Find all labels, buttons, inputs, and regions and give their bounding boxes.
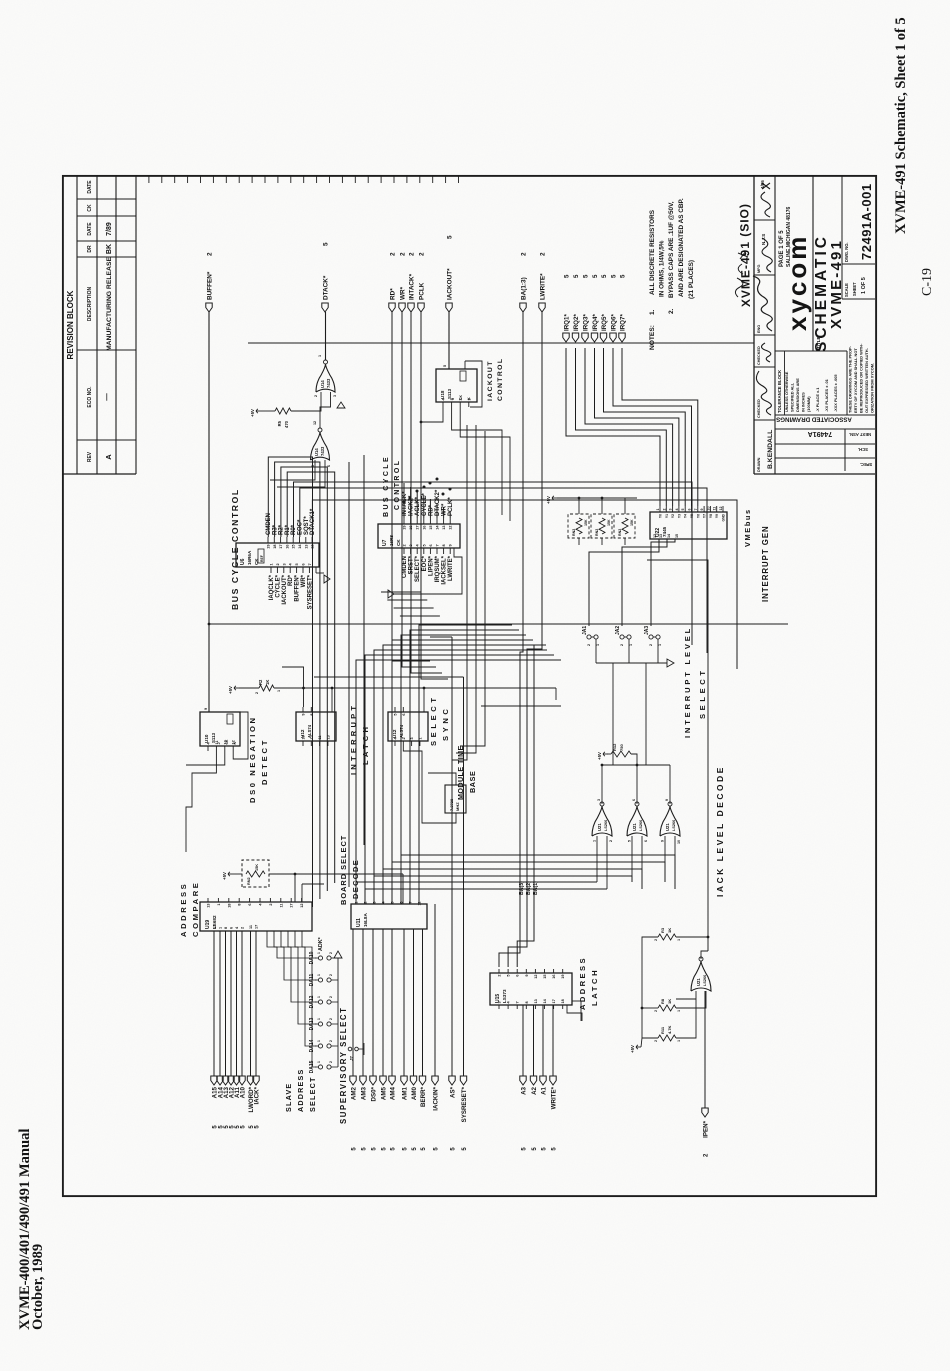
svg-text:DWG. NO.: DWG. NO. bbox=[844, 242, 849, 262]
svg-text:AM1: AM1 bbox=[402, 1086, 409, 1100]
svg-text:AM2: AM2 bbox=[351, 1086, 358, 1100]
svg-text:U21: U21 bbox=[597, 823, 602, 831]
svg-text:.X PLACE ±.1: .X PLACE ±.1 bbox=[815, 387, 820, 412]
svg-text:12: 12 bbox=[534, 975, 538, 979]
svg-text:15K: 15K bbox=[255, 864, 259, 871]
svg-text:U14: U14 bbox=[320, 380, 325, 388]
svg-text:ORIZATION FROM XYCOM.: ORIZATION FROM XYCOM. bbox=[870, 363, 875, 413]
svg-text:SALINE,MICHIGAN 48176: SALINE,MICHIGAN 48176 bbox=[786, 206, 792, 267]
svg-text:CYCLE*: CYCLE* bbox=[422, 493, 428, 516]
svg-text:2: 2 bbox=[329, 1061, 333, 1063]
svg-text:SYNC: SYNC bbox=[441, 706, 450, 742]
svg-text:MHZ: MHZ bbox=[455, 802, 460, 811]
svg-text:+5V: +5V bbox=[597, 752, 602, 760]
svg-text:RN2: RN2 bbox=[595, 529, 599, 536]
svg-text:BK: BK bbox=[106, 244, 113, 254]
svg-text:BA(1:3): BA(1:3) bbox=[521, 277, 528, 300]
svg-text:6: 6 bbox=[632, 799, 636, 801]
svg-text:13: 13 bbox=[442, 526, 446, 530]
svg-text:19: 19 bbox=[561, 975, 565, 979]
svg-text:AND ARE DESIGNATED AS CBP.: AND ARE DESIGNATED AS CBP. bbox=[678, 198, 685, 297]
svg-text:7: 7 bbox=[694, 509, 698, 511]
svg-text:15K: 15K bbox=[630, 519, 634, 526]
svg-text:DS0 NEGATION: DS0 NEGATION bbox=[248, 715, 257, 803]
svg-text:CMDEN: CMDEN bbox=[402, 556, 408, 578]
svg-text:IACK*: IACK* bbox=[254, 1086, 261, 1104]
svg-text:CONTROL: CONTROL bbox=[497, 358, 504, 401]
svg-text:4/85: 4/85 bbox=[760, 180, 765, 189]
svg-text:IN INCHES: IN INCHES bbox=[801, 392, 806, 412]
svg-text:INTERRUPT LEVEL: INTERRUPT LEVEL bbox=[683, 626, 692, 738]
svg-text:IRQ1*: IRQ1* bbox=[564, 314, 571, 331]
svg-text:16: 16 bbox=[552, 975, 556, 979]
svg-text:WR*: WR* bbox=[400, 286, 407, 300]
svg-text:17: 17 bbox=[290, 904, 294, 908]
svg-text:.XX PLACES ± .01: .XX PLACES ± .01 bbox=[824, 378, 829, 412]
svg-text:R1*: R1* bbox=[285, 524, 291, 535]
svg-text:+5V: +5V bbox=[250, 409, 255, 417]
svg-text:3: 3 bbox=[282, 563, 286, 565]
svg-text:ENG: ENG bbox=[757, 325, 761, 333]
svg-text:AM5: AM5 bbox=[381, 1086, 388, 1100]
svg-text:DRAWN: DRAWN bbox=[757, 457, 761, 472]
svg-text:Y3: Y3 bbox=[677, 514, 681, 518]
svg-text:S113: S113 bbox=[447, 388, 452, 399]
svg-text:Y8: Y8 bbox=[709, 514, 713, 518]
svg-text:BUS CYCLE: BUS CYCLE bbox=[383, 455, 390, 517]
svg-text:DTACK1*: DTACK1* bbox=[310, 508, 316, 535]
svg-text:IAQCLK*: IAQCLK* bbox=[269, 574, 275, 600]
svg-text:13: 13 bbox=[534, 999, 538, 1003]
svg-text:8: 8 bbox=[310, 714, 314, 716]
svg-text:6: 6 bbox=[516, 975, 520, 977]
svg-text:XVME-491 Schematic, Sheet 1 of: XVME-491 Schematic, Sheet 1 of 5 bbox=[893, 17, 909, 234]
svg-text:RD*: RD* bbox=[390, 288, 397, 300]
svg-text:MFG: MFG bbox=[757, 265, 761, 273]
svg-text:18: 18 bbox=[227, 904, 231, 908]
svg-text:ECO NO.: ECO NO. bbox=[87, 386, 93, 408]
svg-text:8: 8 bbox=[525, 1001, 529, 1003]
svg-text:DESCRIPTION: DESCRIPTION bbox=[87, 287, 93, 322]
svg-text:1K: 1K bbox=[667, 999, 672, 1004]
svg-text:1: 1 bbox=[677, 1040, 681, 1042]
svg-text:BA(1): BA(1) bbox=[533, 881, 539, 895]
svg-text:RN2: RN2 bbox=[572, 529, 576, 536]
svg-text:72491A-001: 72491A-001 bbox=[859, 183, 874, 260]
svg-text:IACKIN*: IACKIN* bbox=[433, 1086, 440, 1110]
svg-text:R2: R2 bbox=[258, 679, 263, 685]
svg-text:R5: R5 bbox=[277, 420, 282, 426]
svg-text:1: 1 bbox=[317, 1061, 321, 1063]
svg-text:15K: 15K bbox=[584, 519, 588, 526]
svg-text:IRQ7*: IRQ7* bbox=[620, 314, 627, 331]
svg-text:11: 11 bbox=[249, 925, 253, 929]
svg-text:OUT EXPRESSED WRITTEN AUTH-: OUT EXPRESSED WRITTEN AUTH- bbox=[864, 347, 869, 413]
svg-text:NOTES:: NOTES: bbox=[649, 325, 656, 350]
svg-text:U16: U16 bbox=[461, 792, 465, 799]
svg-text:5: 5 bbox=[583, 274, 590, 278]
svg-text:BE REPRODUCED OR COPIED WITH-: BE REPRODUCED OR COPIED WITH- bbox=[859, 343, 864, 413]
svg-text:ERTY OF XYCOM AND SHALL NOT: ERTY OF XYCOM AND SHALL NOT bbox=[853, 348, 858, 413]
svg-text:U21: U21 bbox=[665, 823, 670, 831]
svg-text:6: 6 bbox=[230, 927, 234, 929]
svg-text:Y0: Y0 bbox=[659, 514, 663, 518]
svg-text:U19: U19 bbox=[205, 920, 211, 929]
svg-text:N.J.S: N.J.S bbox=[761, 234, 766, 245]
svg-text:U18: U18 bbox=[440, 390, 445, 399]
svg-text:LS266: LS266 bbox=[703, 975, 707, 986]
svg-text:16L8A: 16L8A bbox=[363, 913, 368, 927]
svg-text:SHEET: SHEET bbox=[852, 282, 857, 296]
svg-text:8: 8 bbox=[442, 544, 446, 546]
svg-text:9: 9 bbox=[700, 509, 704, 511]
svg-text:.XXX PLACES ± .005: .XXX PLACES ± .005 bbox=[833, 374, 838, 412]
svg-text:SCH.: SCH. bbox=[858, 447, 868, 452]
svg-text:6: 6 bbox=[644, 840, 648, 842]
svg-text:2: 2 bbox=[241, 927, 245, 929]
svg-text:750: 750 bbox=[619, 744, 624, 751]
svg-text:5: 5 bbox=[391, 902, 395, 904]
svg-text:12: 12 bbox=[313, 421, 317, 425]
svg-text:CMDEN: CMDEN bbox=[266, 513, 272, 535]
svg-text:6: 6 bbox=[402, 714, 406, 716]
svg-text:BOARD SELECT: BOARD SELECT bbox=[339, 835, 348, 905]
svg-text:11: 11 bbox=[713, 507, 717, 511]
svg-text:CONTROL: CONTROL bbox=[394, 459, 401, 510]
svg-text:2: 2 bbox=[654, 1040, 658, 1042]
svg-text:RD*: RD* bbox=[288, 574, 294, 586]
svg-text:UNLESS OTHERWISE: UNLESS OTHERWISE bbox=[784, 371, 789, 412]
svg-text:2: 2 bbox=[329, 1040, 333, 1042]
svg-text:(100MM): (100MM) bbox=[806, 396, 811, 412]
svg-text:2: 2 bbox=[540, 252, 547, 256]
svg-text:LATCH: LATCH bbox=[590, 968, 599, 1006]
svg-text:AM0: AM0 bbox=[411, 1086, 418, 1100]
svg-text:AS*: AS* bbox=[450, 1086, 457, 1098]
svg-text:JA2: JA2 bbox=[615, 626, 621, 635]
svg-text:11: 11 bbox=[418, 902, 422, 906]
svg-text:IRQ2*: IRQ2* bbox=[573, 314, 580, 331]
svg-text:REVISION BLOCK: REVISION BLOCK bbox=[66, 290, 75, 359]
svg-text:XVME-491: XVME-491 bbox=[828, 239, 845, 329]
svg-text:5: 5 bbox=[447, 235, 454, 239]
svg-text:DTACK2*: DTACK2* bbox=[435, 489, 441, 516]
svg-text:LS266: LS266 bbox=[672, 820, 676, 831]
svg-text:B.KENDALL: B.KENDALL bbox=[767, 430, 774, 469]
svg-text:4.7K: 4.7K bbox=[667, 1025, 672, 1034]
svg-text:6: 6 bbox=[400, 902, 404, 904]
svg-text:12: 12 bbox=[449, 526, 453, 530]
svg-text:15: 15 bbox=[543, 975, 547, 979]
svg-text:7/89: 7/89 bbox=[106, 222, 113, 236]
svg-text:13: 13 bbox=[659, 534, 663, 538]
svg-text:1: 1 bbox=[596, 644, 600, 646]
svg-text:ADDRESS: ADDRESS bbox=[296, 1068, 305, 1112]
svg-text:THESE DRAWINGS ARE THE PROP-: THESE DRAWINGS ARE THE PROP- bbox=[848, 345, 853, 413]
svg-text:IPEN*: IPEN* bbox=[703, 1120, 710, 1137]
svg-text:IRQ4*: IRQ4* bbox=[592, 314, 599, 331]
svg-text:1: 1 bbox=[219, 927, 223, 929]
svg-text:BA(3): BA(3) bbox=[519, 881, 525, 895]
svg-text:LS266: LS266 bbox=[639, 820, 643, 831]
svg-text:5: 5 bbox=[323, 242, 330, 246]
svg-text:BERR*: BERR* bbox=[420, 1086, 427, 1107]
svg-text:DIMENSIONS ARE: DIMENSIONS ARE bbox=[795, 378, 800, 412]
svg-text:5: 5 bbox=[507, 975, 511, 977]
svg-text:LS373: LS373 bbox=[502, 989, 507, 1003]
svg-text:15K: 15K bbox=[607, 519, 611, 526]
svg-text:—: — bbox=[102, 393, 111, 401]
svg-text:17: 17 bbox=[279, 545, 283, 549]
svg-text:SPECIFIED ALL: SPECIFIED ALL bbox=[790, 382, 795, 412]
svg-text:9: 9 bbox=[525, 975, 529, 977]
svg-text:SELECT*: SELECT* bbox=[415, 555, 421, 582]
svg-text:SLAVE: SLAVE bbox=[284, 1083, 293, 1112]
svg-text:IACKSEL*: IACKSEL* bbox=[442, 555, 448, 584]
svg-text:1: 1 bbox=[355, 902, 359, 904]
svg-text:WR*: WR* bbox=[301, 574, 307, 587]
svg-text:ADK*: ADK* bbox=[318, 936, 324, 951]
svg-text:SELECT: SELECT bbox=[308, 1076, 317, 1112]
svg-text:5: 5 bbox=[564, 274, 571, 278]
svg-text:4: 4 bbox=[675, 509, 679, 511]
svg-text:ALS74: ALS74 bbox=[399, 724, 404, 738]
svg-text:1: 1 bbox=[318, 355, 322, 357]
svg-text:15: 15 bbox=[292, 545, 296, 549]
svg-text:1K: 1K bbox=[265, 680, 270, 685]
svg-text:BUFFEN*: BUFFEN* bbox=[295, 574, 301, 601]
svg-text:2: 2 bbox=[314, 395, 318, 397]
svg-text:SPEC.: SPEC. bbox=[860, 462, 873, 467]
svg-text:2: 2 bbox=[521, 252, 528, 256]
svg-text:WRITE*: WRITE* bbox=[551, 1086, 558, 1109]
svg-text:3: 3 bbox=[498, 1001, 502, 1003]
svg-text:2: 2 bbox=[255, 692, 259, 694]
svg-text:7: 7 bbox=[409, 902, 413, 904]
svg-text:IRQSUM*: IRQSUM* bbox=[435, 555, 441, 582]
svg-text:A3: A3 bbox=[521, 1086, 528, 1094]
svg-text:R3: R3 bbox=[660, 927, 665, 933]
svg-text:5: 5 bbox=[573, 274, 580, 278]
svg-text:RN2: RN2 bbox=[618, 529, 622, 536]
svg-text:A: A bbox=[104, 454, 113, 460]
svg-text:BUFFEN*: BUFFEN* bbox=[207, 271, 214, 300]
svg-text:MANUFACTURING RELEASE: MANUFACTURING RELEASE bbox=[106, 257, 113, 351]
svg-text:VMEbus: VMEbus bbox=[743, 508, 752, 547]
svg-text:13: 13 bbox=[304, 545, 308, 549]
svg-text:2: 2 bbox=[400, 252, 407, 256]
svg-text:1: 1 bbox=[317, 1018, 321, 1020]
svg-text:PCLK: PCLK bbox=[419, 282, 426, 300]
svg-text:6: 6 bbox=[688, 509, 692, 511]
svg-text:5: 5 bbox=[601, 274, 608, 278]
svg-text:U6: U6 bbox=[240, 558, 246, 565]
svg-text:2: 2 bbox=[390, 252, 397, 256]
svg-text:12: 12 bbox=[300, 904, 304, 908]
svg-text:SYSRESET*: SYSRESET* bbox=[461, 1086, 468, 1122]
svg-text:RN2: RN2 bbox=[247, 877, 251, 885]
svg-text:BYPASS CAPS ARE .1UF @50V,: BYPASS CAPS ARE .1UF @50V, bbox=[668, 201, 675, 298]
svg-text:5: 5 bbox=[620, 274, 627, 278]
svg-text:CK: CK bbox=[459, 395, 463, 400]
svg-text:7: 7 bbox=[516, 1001, 520, 1003]
svg-text:IRQ3*: IRQ3* bbox=[583, 314, 590, 331]
svg-text:IACKOUT*: IACKOUT* bbox=[282, 574, 288, 604]
svg-text:+5V: +5V bbox=[228, 686, 233, 694]
svg-text:2: 2 bbox=[329, 952, 333, 954]
svg-text:Y2: Y2 bbox=[671, 514, 675, 518]
svg-text:U21: U21 bbox=[632, 823, 637, 831]
svg-text:IACKOUT*: IACKOUT* bbox=[447, 268, 454, 300]
svg-text:3: 3 bbox=[597, 799, 601, 801]
svg-text:U14: U14 bbox=[314, 448, 319, 456]
svg-text:IRQ5*: IRQ5* bbox=[601, 314, 608, 331]
svg-text:17: 17 bbox=[552, 999, 556, 1003]
svg-text:8: 8 bbox=[238, 904, 242, 906]
svg-text:9: 9 bbox=[204, 708, 208, 710]
svg-text:12: 12 bbox=[719, 507, 723, 511]
svg-text:REV: REV bbox=[87, 451, 93, 462]
svg-text:10: 10 bbox=[302, 735, 306, 739]
svg-text:ACLK*: ACLK* bbox=[415, 496, 421, 516]
svg-text:3: 3 bbox=[669, 509, 673, 511]
svg-text:CK: CK bbox=[396, 539, 401, 546]
svg-text:1: 1 bbox=[317, 952, 321, 954]
svg-text:Y6: Y6 bbox=[696, 514, 700, 518]
svg-text:SELECT: SELECT bbox=[698, 667, 707, 719]
svg-text:18: 18 bbox=[561, 999, 565, 1003]
svg-text:A2: A2 bbox=[531, 1086, 538, 1094]
svg-text:15: 15 bbox=[429, 526, 433, 530]
svg-text:EOC*: EOC* bbox=[298, 519, 304, 535]
svg-text:DTACK*: DTACK* bbox=[323, 275, 330, 300]
svg-text:October, 1989: October, 1989 bbox=[30, 1244, 46, 1330]
svg-text:74491A: 74491A bbox=[808, 430, 833, 437]
svg-text:LS266: LS266 bbox=[604, 820, 608, 831]
svg-text:5: 5 bbox=[681, 509, 685, 511]
svg-text:JA3: JA3 bbox=[644, 626, 650, 635]
svg-text:U21: U21 bbox=[696, 978, 701, 986]
svg-text:1: 1 bbox=[270, 563, 274, 565]
svg-text:14: 14 bbox=[667, 534, 671, 538]
svg-text:(21 PLACES): (21 PLACES) bbox=[688, 260, 695, 299]
svg-text:JA1: JA1 bbox=[582, 626, 588, 635]
svg-text:IRQ6*: IRQ6* bbox=[611, 314, 618, 331]
svg-text:LWRITE*: LWRITE* bbox=[448, 555, 454, 581]
svg-text:SUPERVISORY SELECT: SUPERVISORY SELECT bbox=[339, 1007, 348, 1124]
svg-text:2: 2 bbox=[269, 904, 273, 906]
svg-text:LIPEN*: LIPEN* bbox=[428, 555, 434, 576]
svg-text:INTACK*: INTACK* bbox=[409, 273, 416, 300]
svg-text:INTACK*: INTACK* bbox=[402, 491, 408, 516]
svg-text:INTERRUPT: INTERRUPT bbox=[349, 703, 358, 775]
svg-text:6: 6 bbox=[248, 904, 252, 906]
svg-text:7.3728: 7.3728 bbox=[449, 798, 454, 811]
svg-text:19: 19 bbox=[267, 545, 271, 549]
svg-text:10: 10 bbox=[677, 840, 681, 844]
svg-text:INTERRUPT GEN: INTERRUPT GEN bbox=[761, 525, 770, 602]
svg-text:K: K bbox=[233, 742, 237, 745]
svg-text:2: 2 bbox=[419, 252, 426, 256]
svg-text:2: 2 bbox=[654, 1010, 658, 1012]
svg-text:6: 6 bbox=[302, 563, 306, 565]
svg-text:19: 19 bbox=[403, 526, 407, 530]
svg-text:470: 470 bbox=[284, 420, 289, 428]
svg-text:7433: 7433 bbox=[320, 446, 325, 456]
svg-text:CK: CK bbox=[87, 204, 93, 212]
svg-text:BASE: BASE bbox=[468, 771, 477, 793]
svg-text:ADDRESS: ADDRESS bbox=[179, 882, 188, 937]
svg-text:1: 1 bbox=[656, 509, 660, 511]
svg-text:J: J bbox=[217, 742, 221, 744]
svg-text:R2*: R2* bbox=[279, 524, 285, 535]
svg-text:13: 13 bbox=[207, 904, 211, 908]
svg-text:U12: U12 bbox=[392, 729, 397, 738]
svg-text:Y1: Y1 bbox=[665, 514, 669, 518]
svg-text:Y4: Y4 bbox=[684, 514, 688, 518]
svg-text:2: 2 bbox=[329, 1018, 333, 1020]
svg-text:WR*: WR* bbox=[442, 503, 448, 516]
svg-text:R8: R8 bbox=[660, 998, 665, 1004]
svg-text:C-19: C-19 bbox=[920, 268, 935, 296]
svg-text:1: 1 bbox=[658, 644, 662, 646]
svg-text:2: 2 bbox=[654, 939, 658, 941]
svg-text:9: 9 bbox=[661, 840, 665, 842]
svg-text:9: 9 bbox=[302, 714, 306, 716]
svg-text:8: 8 bbox=[224, 927, 228, 929]
svg-text:2.: 2. bbox=[668, 308, 675, 314]
svg-text:MODULE TIME: MODULE TIME bbox=[456, 745, 465, 800]
svg-text:5: 5 bbox=[592, 274, 599, 278]
svg-text:PAGE 1 OF 5: PAGE 1 OF 5 bbox=[779, 230, 785, 267]
svg-text:RD*: RD* bbox=[428, 504, 434, 516]
svg-text:1 OF 5: 1 OF 5 bbox=[861, 277, 867, 294]
svg-text:9: 9 bbox=[665, 799, 669, 801]
svg-text:2: 2 bbox=[207, 252, 214, 256]
svg-text:2: 2 bbox=[403, 544, 407, 546]
svg-text:DR: DR bbox=[87, 245, 93, 253]
svg-text:+5V: +5V bbox=[630, 1045, 635, 1053]
svg-text:1: 1 bbox=[677, 1010, 681, 1012]
svg-text:5: 5 bbox=[628, 840, 632, 842]
svg-text:ALL DISCRETE RESISTORS: ALL DISCRETE RESISTORS bbox=[649, 209, 656, 295]
svg-text:16: 16 bbox=[422, 526, 426, 530]
svg-text:12: 12 bbox=[653, 534, 657, 538]
svg-text:1: 1 bbox=[317, 996, 321, 998]
svg-text:DATE: DATE bbox=[87, 222, 93, 236]
svg-text:GND: GND bbox=[722, 513, 726, 521]
svg-text:3: 3 bbox=[373, 902, 377, 904]
svg-text:A10: A10 bbox=[240, 1086, 247, 1098]
svg-text:IACKOUT: IACKOUT bbox=[487, 360, 494, 401]
svg-text:R0*: R0* bbox=[291, 524, 297, 535]
svg-text:AM4: AM4 bbox=[390, 1086, 397, 1100]
svg-text:2: 2 bbox=[276, 563, 280, 565]
svg-text:2: 2 bbox=[609, 840, 613, 842]
svg-text:5: 5 bbox=[443, 365, 447, 367]
svg-text:COMPARE: COMPARE bbox=[191, 881, 200, 937]
svg-text:CYCLE*: CYCLE* bbox=[275, 574, 281, 597]
svg-text:CHECKED: CHECKED bbox=[757, 346, 761, 365]
svg-text:REF: REF bbox=[260, 555, 264, 562]
svg-text:U10: U10 bbox=[204, 734, 209, 743]
svg-text:2: 2 bbox=[498, 975, 502, 977]
svg-text:SRST*: SRST* bbox=[409, 555, 415, 574]
svg-text:17: 17 bbox=[255, 925, 259, 929]
svg-text:18: 18 bbox=[273, 545, 277, 549]
svg-text:ADDRESS: ADDRESS bbox=[578, 956, 587, 1010]
svg-text:LWRITE*: LWRITE* bbox=[540, 273, 547, 300]
